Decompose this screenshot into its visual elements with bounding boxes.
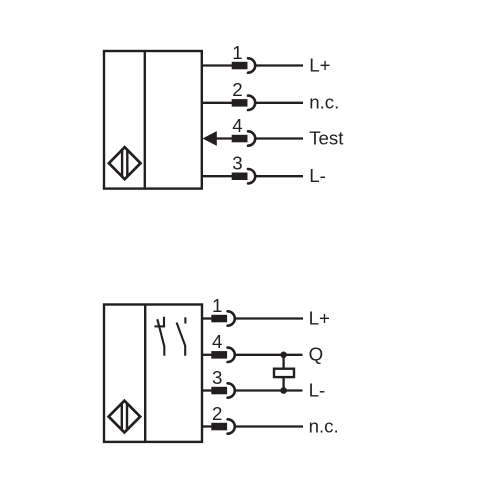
svg-text:3: 3	[212, 367, 222, 388]
junction dot	[280, 387, 287, 394]
sensor body U1	[104, 51, 202, 189]
sensor body U2	[104, 305, 202, 442]
plug pin (black rect)	[211, 423, 227, 431]
wire	[256, 102, 303, 104]
resistor body	[274, 369, 294, 377]
plug pin (black rect)	[232, 99, 248, 107]
socket arc	[248, 131, 255, 145]
svg-text:L-: L-	[309, 165, 326, 186]
NC contact symbol	[155, 317, 166, 356]
wire	[210, 137, 232, 139]
svg-text:Test: Test	[309, 127, 344, 148]
plug pin (black rect)	[232, 173, 248, 181]
svg-text:3: 3	[232, 153, 242, 174]
plug pin (black rect)	[211, 387, 227, 395]
plug pin (black rect)	[232, 135, 248, 143]
pin 3 row (L-)	[202, 367, 325, 400]
wire	[282, 377, 284, 390]
svg-text:1: 1	[232, 42, 242, 63]
NO contact symbol	[177, 317, 186, 355]
socket arc	[248, 58, 255, 72]
wire	[282, 355, 284, 369]
socket arc	[228, 311, 235, 325]
arrow into sensor	[203, 131, 217, 146]
pin 3 row	[202, 153, 326, 186]
pin 4 row (Q)	[202, 331, 323, 364]
plug pin (black rect)	[232, 62, 248, 70]
pin 2 row	[202, 79, 340, 112]
sensor symbol (diamond)	[109, 147, 141, 179]
svg-text:n.c.: n.c.	[309, 415, 339, 436]
wire	[202, 317, 212, 319]
wire	[235, 389, 302, 391]
wire	[256, 175, 303, 177]
svg-text:4: 4	[232, 115, 242, 136]
divider line	[144, 51, 146, 189]
svg-text:1: 1	[212, 295, 222, 316]
svg-text:n.c.: n.c.	[309, 92, 339, 113]
wire	[235, 317, 303, 319]
wire	[256, 137, 303, 139]
wire	[202, 389, 212, 391]
load resistor RL	[274, 355, 294, 391]
plug pin (black rect)	[211, 351, 227, 359]
wire	[202, 64, 232, 66]
svg-text:2: 2	[232, 79, 242, 100]
svg-text:2: 2	[212, 403, 222, 424]
wire	[256, 64, 303, 66]
svg-text:L-: L-	[309, 379, 326, 400]
wire	[202, 425, 212, 427]
pin 1 row	[202, 42, 331, 75]
wire	[235, 354, 302, 356]
junction dot	[280, 352, 287, 359]
svg-text:4: 4	[212, 331, 222, 352]
sensor symbol (diamond)	[109, 401, 141, 433]
pin 1 row	[202, 295, 330, 328]
socket arc	[228, 348, 235, 362]
socket arc	[228, 383, 235, 397]
svg-text:L+: L+	[309, 307, 330, 328]
socket arc	[248, 96, 255, 110]
pin 2 row (n.c.)	[202, 403, 339, 436]
svg-text:L+: L+	[309, 54, 330, 75]
wire	[202, 354, 212, 356]
socket arc	[228, 419, 235, 433]
plug pin (black rect)	[211, 315, 227, 323]
wire	[202, 102, 232, 104]
wire	[235, 425, 303, 427]
divider line	[144, 305, 146, 442]
wire	[202, 175, 232, 177]
socket arc	[248, 169, 255, 183]
pin 4 row (Test)	[203, 115, 345, 148]
svg-text:Q: Q	[309, 344, 324, 365]
